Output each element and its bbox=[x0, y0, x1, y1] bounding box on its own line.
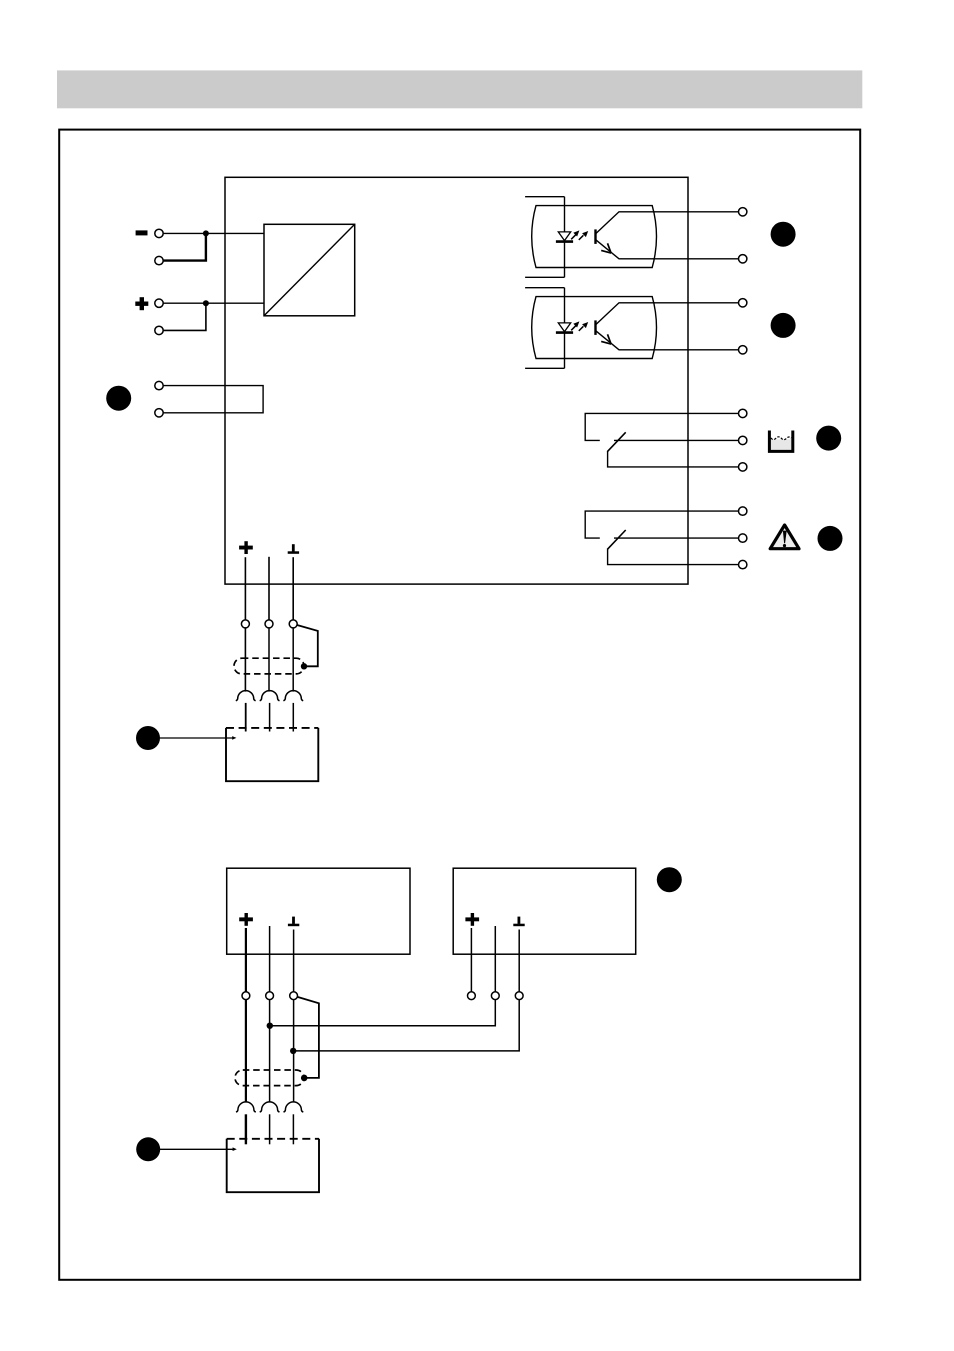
ground label box right bbox=[513, 917, 524, 927]
level vessel icon bbox=[769, 431, 792, 452]
wire left drop 3 bbox=[293, 1000, 295, 1103]
sensor housing 2 bbox=[227, 1139, 319, 1192]
cable gland 2b bbox=[260, 1102, 280, 1112]
plus polarity label bbox=[135, 297, 148, 310]
terminal circle 9 bbox=[289, 620, 297, 628]
wire left box mid bbox=[269, 926, 271, 992]
relay contact K1 bbox=[585, 409, 747, 471]
plus label sensor output bbox=[239, 541, 253, 554]
junction plus bbox=[203, 300, 209, 306]
arrow leader 1 bbox=[160, 736, 237, 740]
power unit box left bbox=[227, 868, 410, 954]
wire plus feed bbox=[163, 302, 264, 304]
wire into sensor 2b bbox=[269, 1114, 271, 1144]
wire shield jog 1 bbox=[297, 625, 318, 666]
wire into sensor 1c bbox=[292, 703, 294, 732]
wire sensor drop 1b bbox=[268, 628, 270, 692]
callout dot 3 bbox=[771, 313, 796, 338]
cable gland 1a bbox=[236, 691, 256, 701]
callout dot 8 bbox=[136, 1137, 160, 1161]
wire sensor drop 1a bbox=[244, 628, 246, 692]
warning triangle icon bbox=[770, 525, 799, 549]
junction minus bbox=[203, 230, 209, 236]
terminal circle 6 bbox=[155, 409, 163, 417]
wire right box mid bbox=[494, 926, 496, 992]
wire auxiliary loop bbox=[163, 386, 263, 413]
terminal circle 4 bbox=[155, 326, 163, 334]
header bar bbox=[57, 70, 862, 108]
arrow leader 2 bbox=[160, 1147, 237, 1151]
junction shield 2 bbox=[301, 1075, 308, 1082]
optocoupler U2 bbox=[525, 288, 747, 369]
terminal circle 13 bbox=[468, 992, 476, 1000]
wire tie line 1 bbox=[270, 1000, 496, 1026]
cable shield 2 bbox=[235, 1070, 304, 1086]
terminal circle 8 bbox=[265, 620, 273, 628]
transformer / isolator block bbox=[264, 224, 355, 315]
callout dot 2 bbox=[771, 222, 796, 247]
callout dot 1 bbox=[106, 386, 131, 411]
minus polarity label bbox=[136, 230, 148, 235]
wire sensor mid bbox=[268, 557, 270, 620]
plus label box left bbox=[239, 913, 253, 926]
cable gland 1b bbox=[260, 691, 280, 701]
terminal circle 3 bbox=[155, 299, 163, 307]
optocoupler U1 bbox=[525, 197, 747, 278]
terminal circle 11 bbox=[266, 992, 274, 1000]
wire left drop 2 bbox=[269, 1000, 271, 1103]
wire sensor ground bbox=[292, 557, 294, 620]
terminal circle 1 bbox=[155, 229, 163, 237]
transmitter main box bbox=[225, 177, 688, 584]
callout dot 7 bbox=[657, 867, 682, 892]
page border frame bbox=[59, 130, 860, 1280]
wire into sensor 1a bbox=[245, 703, 247, 732]
wire into sensor 2a bbox=[245, 1114, 247, 1144]
wire minus feed bbox=[163, 232, 264, 234]
terminal circle 12 bbox=[290, 992, 298, 1000]
terminal circle 14 bbox=[491, 992, 499, 1000]
callout dot 6 bbox=[136, 726, 160, 750]
ground label box left bbox=[288, 917, 299, 927]
wire right box plus bbox=[470, 928, 472, 992]
wire right box ground bbox=[518, 930, 520, 992]
wire sensor drop 1c bbox=[292, 628, 294, 692]
wire shield jog 2 bbox=[297, 997, 319, 1078]
terminal circle 7 bbox=[241, 620, 249, 628]
ground label sensor output bbox=[288, 544, 299, 554]
sensor housing 1 bbox=[226, 728, 318, 781]
cable gland 1c bbox=[283, 691, 303, 701]
cable gland 2c bbox=[284, 1102, 304, 1112]
wire into sensor 1b bbox=[269, 703, 271, 732]
wire left box plus bbox=[245, 928, 247, 992]
cable gland 2a bbox=[236, 1102, 256, 1112]
relay contact K2 bbox=[585, 507, 747, 569]
wire minus link loop bbox=[163, 235, 206, 260]
wire tie line 2 bbox=[293, 1000, 519, 1051]
wire plus link loop bbox=[163, 305, 206, 330]
plus label box right bbox=[465, 913, 479, 926]
terminal circle 15 bbox=[515, 992, 523, 1000]
power unit box right bbox=[453, 868, 636, 954]
wire sensor plus bbox=[244, 557, 246, 620]
callout dot 4 bbox=[816, 426, 841, 451]
terminal circle 10 bbox=[242, 992, 250, 1000]
junction tie 1 bbox=[267, 1022, 273, 1028]
cable shield 1 bbox=[234, 658, 304, 674]
wire into sensor 2c bbox=[292, 1114, 294, 1144]
terminal circle 5 bbox=[155, 381, 163, 389]
callout dot 5 bbox=[818, 526, 843, 551]
wire left drop 1 bbox=[245, 1000, 247, 1103]
terminal circle 2 bbox=[155, 256, 163, 264]
junction tie 2 bbox=[290, 1048, 296, 1054]
junction shield 1 bbox=[301, 663, 307, 669]
wire left box ground bbox=[293, 930, 295, 992]
